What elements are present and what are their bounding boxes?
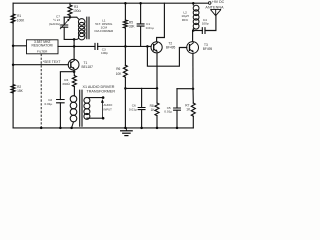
- wire: collector node to C4: [193, 30, 202, 32]
- wire: dashed resonator ground lead (see text): [40, 54, 42, 128]
- resistor R5 33K: [123, 3, 135, 46]
- node: C1 top rail junction: [139, 2, 142, 4]
- svg-text:0.01µ: 0.01µ: [129, 108, 137, 112]
- svg-text:0.01µ: 0.01µ: [164, 110, 172, 114]
- svg-text:R4: R4: [64, 78, 68, 82]
- wire: R6 to ground rail: [124, 88, 126, 128]
- node: audio input terminal top: [102, 96, 105, 99]
- wire: oscillator tank top: [64, 16, 77, 18]
- svg-text:1K: 1K: [186, 108, 191, 112]
- svg-text:BF495: BF495: [203, 47, 213, 51]
- svg-text:1K: 1K: [151, 108, 156, 112]
- ground: [120, 128, 133, 136]
- wire: T3 emitter bypass row: [177, 88, 193, 90]
- node: junction left rail / resonator: [12, 45, 15, 48]
- node: R5 base line junction: [124, 45, 127, 48]
- audio input arrow: [101, 102, 103, 118]
- svg-text:15K: 15K: [17, 89, 24, 93]
- resistor R4 330Ω: [62, 72, 76, 96]
- node: primary ground junction: [70, 127, 73, 129]
- svg-text:R6: R6: [116, 67, 120, 71]
- svg-text:ANTENNA: ANTENNA: [205, 6, 224, 10]
- capacitor C1 0.01µ: [137, 3, 154, 46]
- node: audio input terminal bottom: [102, 117, 105, 120]
- svg-text:R1: R1: [17, 14, 21, 18]
- svg-text:100p: 100p: [101, 51, 108, 55]
- svg-text:10K: 10K: [116, 72, 123, 76]
- resistor R3 100Ω: [68, 3, 81, 17]
- capacitor C3 100p: [95, 43, 108, 55]
- node: tank bottom junction: [73, 38, 76, 41]
- svg-text:FILTER: FILTER: [37, 50, 48, 54]
- svg-text:0.01µ: 0.01µ: [45, 102, 53, 106]
- svg-text:33K: 33K: [129, 25, 136, 29]
- resistor R2 15K: [11, 85, 24, 94]
- svg-text:INPUT: INPUT: [104, 107, 113, 111]
- svg-text:RFC: RFC: [182, 18, 189, 22]
- svg-text:RESONATOR/: RESONATOR/: [31, 44, 53, 48]
- capacitor C7 variable gang: [49, 14, 74, 39]
- wire: T3 collector: [192, 31, 194, 42]
- node: L2 / T3 collector / C4 junction: [192, 29, 195, 32]
- core of X1: [80, 90, 82, 126]
- wire: T2 emitter: [156, 53, 158, 89]
- wire: T2 emitter bypass row: [125, 87, 157, 89]
- label L1: [94, 18, 114, 33]
- wire: left rail: [12, 3, 14, 128]
- resonator/filter box 3.587 MHZ: [27, 40, 59, 54]
- svg-text:100Ω: 100Ω: [73, 9, 81, 13]
- svg-text:100p: 100p: [202, 22, 209, 26]
- resistor R7 1K: [185, 89, 195, 128]
- antenna: [210, 9, 221, 15]
- transistor T2 BF495: [151, 41, 176, 53]
- wire: +9V top rail: [13, 2, 208, 4]
- node: T2 emitter junction: [156, 87, 159, 90]
- svg-text:BF495: BF495: [166, 45, 176, 49]
- transformer X1 audio driver, primary winding: [70, 96, 77, 128]
- inductor L2 10µH RFC: [193, 3, 199, 30]
- svg-text:+9V DC: +9V DC: [212, 0, 225, 4]
- resistor R6 10K: [116, 46, 128, 88]
- wire: T3 emitter: [192, 53, 194, 88]
- capacitor C5 0.01µ: [164, 89, 180, 128]
- node: C2 ground junction: [59, 127, 62, 129]
- svg-text:100K: 100K: [17, 19, 25, 23]
- transformer X1 secondary winding: [84, 97, 90, 119]
- wire: ground bottom rail: [13, 127, 193, 129]
- node: R3 / C7 / L1 junction: [69, 16, 72, 19]
- wire: secondary to audio input terminals: [87, 98, 103, 119]
- node: junction left rail / T1 base: [12, 63, 15, 66]
- svg-text:(GANG): (GANG): [49, 22, 60, 26]
- node: L2 top rail junction: [192, 2, 195, 4]
- transistor T1 BEL187: [68, 59, 93, 70]
- transistor T3 BF495: [187, 42, 213, 54]
- wire: left rail to T1 base: [13, 64, 68, 66]
- node: T3 emitter junction: [192, 87, 195, 90]
- svg-text:AUDIO: AUDIO: [104, 103, 114, 107]
- node: ground rail junction at R6: [124, 127, 127, 129]
- wire: resonator output to T2 base line: [58, 45, 95, 47]
- svg-text:DIA FORMER: DIA FORMER: [94, 29, 114, 33]
- wire: T1 collector line: [73, 39, 75, 59]
- wire: emitter to C2: [60, 72, 74, 100]
- wire: T2 base to T3 base link: [147, 46, 186, 66]
- inductor L1 oscillator coil: [74, 17, 85, 40]
- wire: left rail to resonator filter: [13, 45, 26, 47]
- resistor R1 100K: [11, 14, 25, 23]
- wire: T2 collector to rail: [157, 3, 165, 42]
- svg-text:*SEE TEXT: *SEE TEXT: [43, 60, 61, 64]
- resistor R8 1K: [150, 88, 159, 128]
- capacitor C6 0.01µ: [129, 88, 145, 128]
- node: T2 base junction: [146, 45, 149, 48]
- svg-text:TRANSFORMER: TRANSFORMER: [87, 89, 116, 93]
- core of L1: [87, 17, 89, 39]
- node: T1 emitter junction: [73, 70, 76, 73]
- node: +9V DC supply terminal: [208, 0, 224, 4]
- node: resonator / C3 tap on collector: [73, 45, 76, 48]
- node: R5 top rail junction: [124, 2, 127, 4]
- capacitor C2 0.01µ: [45, 98, 65, 128]
- capacitor C4 100p: [202, 18, 209, 33]
- svg-text:X1 AUDIO DRIVER: X1 AUDIO DRIVER: [83, 85, 115, 89]
- svg-text:330Ω: 330Ω: [62, 82, 70, 86]
- wire: C4 to antenna: [205, 16, 216, 31]
- node: R6 bottom junction: [124, 87, 127, 90]
- svg-text:BEL187: BEL187: [82, 65, 94, 69]
- wire: T1 emitter lead: [73, 70, 75, 72]
- svg-text:0.01µ: 0.01µ: [146, 26, 154, 30]
